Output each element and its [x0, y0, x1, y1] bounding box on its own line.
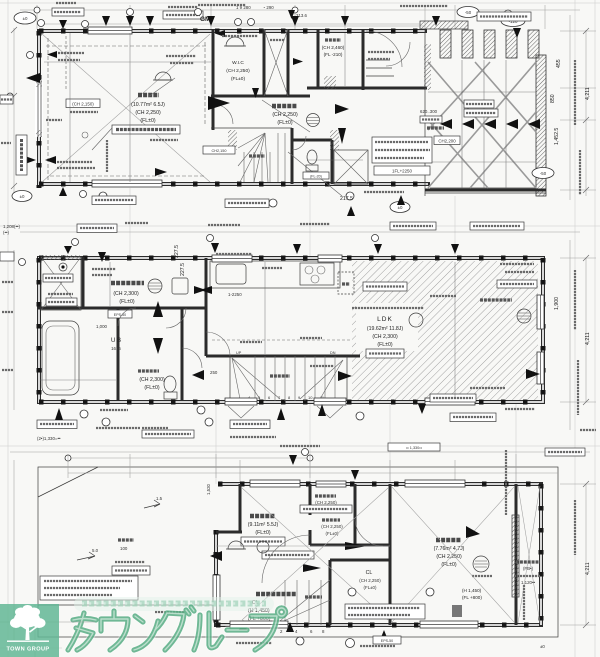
svg-text:1,000: 1,000 [96, 324, 108, 329]
svg-text:(CH 2,250): (CH 2,250) [226, 68, 250, 74]
svg-text:850: 850 [550, 94, 556, 103]
svg-text:100: 100 [120, 546, 128, 551]
svg-text:1.5: 1.5 [156, 496, 163, 501]
svg-text:1616: 1616 [111, 346, 121, 351]
svg-text:UP: UP [236, 351, 242, 355]
svg-text:(CH 2,250): (CH 2,250) [321, 524, 343, 529]
svg-text:TOWN GROUP: TOWN GROUP [6, 647, 49, 653]
svg-text:4,211: 4,211 [585, 332, 591, 345]
svg-text:(FL±0): (FL±0) [377, 342, 393, 348]
svg-text:7: 7 [278, 395, 281, 400]
svg-text:(FL±0): (FL±0) [119, 299, 135, 305]
svg-text:W.I.C: W.I.C [232, 60, 244, 66]
svg-text:CL: CL [366, 570, 373, 576]
svg-text:1,208(••): 1,208(••) [3, 224, 21, 229]
svg-text:•• 1,330••: •• 1,330•• [406, 446, 423, 450]
svg-text:(CH 2,250): (CH 2,250) [135, 110, 161, 116]
svg-text:217.5: 217.5 [340, 196, 353, 202]
svg-text:8: 8 [322, 629, 325, 634]
svg-text:(CH 2,300): (CH 2,300) [113, 291, 139, 297]
svg-text:(FB•): (FB•) [523, 566, 534, 571]
svg-text:(FL±0): (FL±0) [364, 585, 377, 590]
svg-text:(CH 2,300): (CH 2,300) [139, 377, 165, 383]
svg-text:455: 455 [556, 59, 562, 68]
svg-text:±0: ±0 [540, 644, 545, 649]
svg-text:(CH 2,150): (CH 2,150) [72, 102, 94, 107]
svg-text:620..300: 620..300 [420, 109, 438, 114]
svg-text:(FL±0): (FL±0) [140, 118, 156, 124]
svg-text:(FL±0): (FL±0) [231, 76, 245, 82]
svg-text:8: 8 [288, 395, 291, 400]
svg-text:EPS-50: EPS-50 [381, 639, 393, 643]
svg-text:±0: ±0 [23, 16, 28, 21]
svg-text:CH2,200: CH2,200 [438, 139, 456, 144]
svg-text:1-2250: 1-2250 [228, 292, 242, 297]
svg-text:(FL±0): (FL±0) [277, 120, 293, 126]
svg-text:6: 6 [268, 395, 271, 400]
svg-text:(CH 2,460): (CH 2,460) [322, 45, 345, 50]
svg-text:(CH 2,300): (CH 2,300) [372, 334, 398, 340]
svg-text:(10.77m² 6.5J): (10.77m² 6.5J) [131, 102, 165, 108]
svg-text:(CH 2,250): (CH 2,250) [315, 500, 337, 505]
svg-text:±0: ±0 [20, 194, 25, 199]
svg-text:9: 9 [298, 395, 301, 400]
svg-text:CH2,150: CH2,150 [212, 149, 227, 153]
svg-text:5: 5 [258, 395, 261, 400]
svg-text:2: 2 [280, 629, 283, 634]
svg-text:(FL -210): (FL -210) [324, 52, 343, 57]
svg-text:-50: -50 [540, 171, 547, 176]
svg-text:EPS-50: EPS-50 [114, 313, 126, 317]
svg-text:4: 4 [295, 629, 298, 634]
svg-text:5.0: 5.0 [92, 548, 99, 553]
svg-text:6: 6 [310, 629, 313, 634]
svg-text:(CH 2,250): (CH 2,250) [272, 112, 298, 118]
svg-text:(FL±0): (FL±0) [144, 385, 160, 391]
svg-text:・290: ・290 [262, 5, 274, 10]
svg-text:10: 10 [308, 395, 313, 400]
svg-text:4,211: 4,211 [585, 87, 591, 100]
svg-text:(FL-20): (FL-20) [310, 175, 322, 179]
svg-text:-50: -50 [465, 10, 472, 15]
svg-text:DN: DN [330, 351, 336, 355]
svg-text:(9.11m² 5.5J): (9.11m² 5.5J) [248, 522, 279, 528]
svg-text:(FL±0): (FL±0) [326, 531, 339, 536]
svg-text:1,120••: 1,120•• [521, 580, 536, 585]
svg-text:(••): (••) [3, 230, 10, 235]
svg-text:1,900: 1,900 [554, 297, 560, 310]
svg-text:(19.62m² 11.8J): (19.62m² 11.8J) [367, 326, 404, 332]
svg-text:(H 1,450): (H 1,450) [462, 588, 482, 593]
svg-text:250: 250 [210, 370, 218, 375]
svg-text:1,520: 1,520 [206, 483, 211, 495]
svg-text:(FL±0): (FL±0) [255, 530, 271, 536]
svg-text:(FL +800): (FL +800) [462, 595, 482, 600]
svg-text:LDK: LDK [377, 316, 393, 323]
svg-text:227.5: 227.5 [180, 263, 186, 276]
svg-text:227.5: 227.5 [174, 245, 180, 258]
svg-text:(2•)1,330=••: (2•)1,330=•• [37, 436, 61, 441]
svg-text:1,452.5: 1,452.5 [554, 128, 560, 145]
svg-text:(CH 2,250): (CH 2,250) [359, 578, 381, 583]
svg-text:±0: ±0 [398, 205, 403, 210]
svg-text:U B: U B [111, 338, 121, 344]
svg-text:1FL+2250: 1FL+2250 [392, 169, 412, 174]
